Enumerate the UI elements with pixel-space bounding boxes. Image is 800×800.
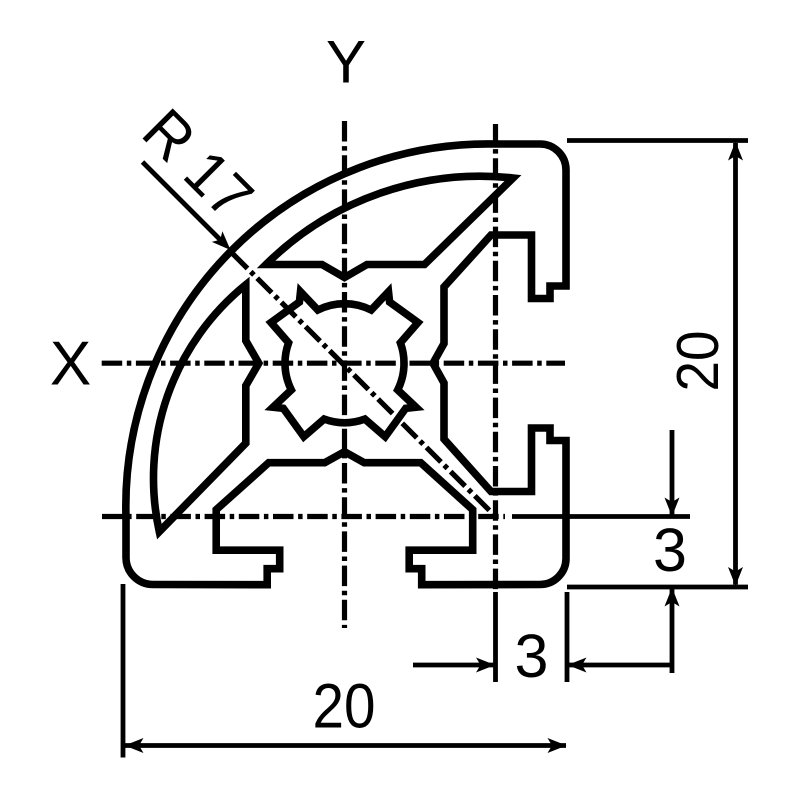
svg-text:X: X [50,330,91,399]
svg-text:Y: Y [326,29,366,96]
svg-text:3: 3 [515,622,549,690]
svg-text:20: 20 [313,672,376,742]
svg-text:3: 3 [653,516,687,584]
svg-text:20: 20 [665,331,731,392]
